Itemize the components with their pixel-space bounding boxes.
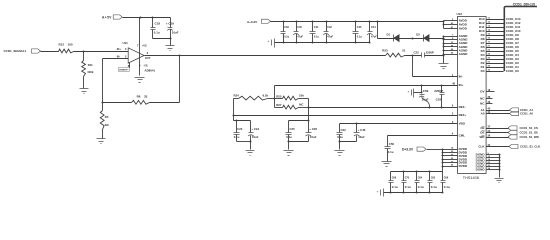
wire cap bank bottom AGND [275, 42, 370, 44]
resistor R24 [234, 93, 275, 100]
svg-text:OE: OE [480, 131, 484, 135]
svg-text:0.1u: 0.1u [405, 185, 411, 189]
svg-text:C25: C25 [290, 127, 296, 131]
capacitor C64 [415, 172, 424, 194]
svg-text:D1: D1 [387, 33, 391, 37]
capacitor C59 [419, 86, 430, 108]
svg-text:C18: C18 [155, 22, 161, 26]
svg-text:33: 33 [144, 95, 148, 99]
capacitor C39 polarized end [268, 39, 275, 48]
wire bottom cap rail [391, 171, 443, 173]
svg-text:CCD1_S1_OE: CCD1_S1_OE [520, 131, 539, 135]
capacitor C19 [166, 18, 179, 39]
wire CML line [388, 135, 458, 137]
svg-text:IN+: IN+ [117, 47, 122, 51]
svg-text:R27: R27 [276, 103, 282, 107]
capacitor C40 [293, 21, 303, 44]
pin 37 CE [480, 126, 538, 131]
ground of R11 [80, 89, 89, 94]
svg-text:-VS: -VS [143, 64, 148, 68]
ground of DGND [495, 179, 504, 183]
capacitor C22 series [414, 50, 444, 57]
capacitor C53 [434, 86, 444, 108]
svg-text:AVDD: AVDD [459, 27, 468, 31]
pin 39 NC [480, 101, 492, 106]
op-amp OUT label [145, 51, 151, 60]
pin 32 CLK [478, 144, 541, 149]
pin 40 A1 [481, 108, 534, 113]
wire diode row [378, 38, 444, 40]
wire node to IN- pin [413, 56, 458, 77]
svg-text:C40: C40 [297, 26, 302, 29]
svg-text:DGND: DGND [476, 167, 486, 171]
svg-text:8.2k: 8.2k [263, 93, 269, 97]
svg-text:0.1u: 0.1u [286, 135, 292, 139]
svg-text:10uF: 10uF [358, 135, 365, 139]
svg-text:0.1u: 0.1u [392, 185, 398, 189]
svg-text:+: + [408, 90, 410, 94]
wire REF+ line [233, 99, 458, 117]
wire cap bottoms [153, 38, 172, 46]
svg-text:+VS: +VS [142, 43, 147, 47]
svg-text:0.1u: 0.1u [357, 36, 362, 39]
svg-text:C69: C69 [392, 177, 397, 180]
svg-text:D2: D2 [416, 33, 420, 37]
pin labels AGND [451, 34, 469, 56]
wire op-amp OUT [145, 55, 386, 57]
wire AGND rail [443, 36, 458, 64]
svg-text:OV: OV [480, 89, 484, 93]
svg-text:AGND: AGND [459, 52, 469, 56]
svg-text:U11: U11 [123, 41, 129, 45]
svg-text:47uF: 47uF [297, 36, 303, 39]
svg-text:10uF: 10uF [252, 135, 259, 139]
svg-text:10uF: 10uF [172, 31, 179, 35]
svg-text:C22: C22 [414, 50, 420, 54]
op-amp supply line [137, 18, 148, 76]
svg-text:0.1u: 0.1u [337, 135, 343, 139]
ground of C56 [382, 162, 392, 167]
wire feedback right [150, 55, 181, 103]
svg-text:R12: R12 [59, 42, 65, 46]
svg-text:C56: C56 [389, 142, 395, 146]
ground of op-amp [135, 78, 145, 83]
pin 18 OVR [480, 89, 494, 94]
svg-text:A0: A0 [481, 112, 485, 116]
op-amp part number [145, 68, 156, 72]
svg-text:CML: CML [459, 133, 466, 137]
svg-text:100k: 100k [87, 70, 94, 74]
svg-text:OUT: OUT [145, 56, 151, 60]
svg-text:47uF: 47uF [371, 36, 377, 39]
svg-text:0.1u: 0.1u [444, 185, 450, 189]
wire pair3 bottom [339, 141, 357, 150]
resistor R6 [132, 95, 150, 105]
capacitor C46 [354, 124, 366, 142]
op-amp pin8 DISABLE [118, 63, 129, 72]
svg-text:IN-: IN- [459, 74, 463, 78]
resistor R25 [275, 94, 309, 108]
net labels CCD1_D13-D0 [506, 17, 521, 73]
svg-text:R25: R25 [276, 94, 282, 98]
svg-text:D+3.3V: D+3.3V [402, 147, 414, 151]
svg-text:DISABLE: DISABLE [119, 69, 128, 72]
wire R23 to node [405, 55, 422, 57]
svg-text:CCD1_S1_CS: CCD1_S1_CS [520, 126, 538, 130]
svg-text:+ C24: + C24 [251, 127, 259, 131]
svg-text:C44: C44 [371, 26, 376, 29]
pins AVDD [443, 19, 468, 31]
power D+3.3V [402, 147, 443, 151]
resistor R11 [82, 52, 94, 89]
ground of pair2 [284, 151, 294, 156]
svg-text:IN+: IN+ [459, 83, 464, 87]
svg-text:R23: R23 [382, 49, 388, 53]
pin 1 IN- [452, 74, 463, 79]
wire pair2 feed [289, 108, 310, 133]
wire IN- feedback [102, 59, 129, 104]
pins DVDD [442, 147, 468, 172]
svg-text:C32: C32 [341, 128, 347, 132]
svg-text:VBO: VBO [459, 122, 466, 126]
svg-text:+ C46: + C46 [358, 128, 366, 132]
svg-text:CCD1_D[0-13]: CCD1_D[0-13] [513, 2, 535, 6]
capacitor C65 [428, 172, 437, 194]
resistor R12 [59, 42, 74, 53]
pin 5 REF+ [452, 112, 467, 117]
svg-text:51: 51 [402, 49, 406, 53]
ground of R5 [97, 139, 106, 144]
wire divider to IN+ [274, 86, 276, 100]
op-amp U11 triangle [123, 41, 145, 63]
wire VBO line [340, 123, 458, 125]
svg-text:100: 100 [68, 42, 73, 46]
capacitor C43 [353, 21, 363, 44]
ground of AGND rail [439, 64, 449, 69]
svg-text:DVDD: DVDD [459, 164, 468, 168]
svg-text:U12: U12 [457, 12, 463, 16]
svg-text:CCD1_SIGNAL1: CCD1_SIGNAL1 [4, 49, 27, 53]
ground of pair1 [246, 151, 255, 156]
svg-text:C59: C59 [423, 89, 429, 93]
resistor R23 [382, 49, 406, 57]
op-amp pin3 IN+ [117, 47, 127, 51]
svg-text:0.1u: 0.1u [418, 185, 424, 189]
pin 4 CML [452, 133, 465, 138]
svg-text:CCD1_A0: CCD1_A0 [520, 112, 533, 116]
svg-text:+: + [268, 39, 270, 43]
ground of pair3 [335, 151, 345, 156]
capacitor C32 [337, 124, 347, 142]
svg-text:+ C26: + C26 [309, 127, 317, 131]
svg-text:C23: C23 [237, 127, 243, 131]
capacitor C44 [367, 21, 377, 44]
svg-text:AD8041: AD8041 [145, 68, 156, 72]
svg-text:C42: C42 [327, 26, 332, 29]
capacitor C71 polarized end [377, 189, 384, 197]
svg-text:10uF: 10uF [310, 135, 317, 139]
svg-text:0.1u: 0.1u [284, 36, 289, 39]
wire IN+ line [275, 85, 458, 87]
capacitor C33 [281, 21, 290, 44]
capacitor C69 [389, 172, 398, 194]
wire pair1 feed [234, 116, 251, 133]
pin 38 NC [480, 96, 492, 101]
svg-text:NC: NC [105, 123, 109, 127]
wire bottom cap ground rail [384, 192, 443, 194]
ground of C18 C19 [166, 46, 175, 51]
capacitor C41 [310, 21, 320, 44]
wire feedback bottom [103, 102, 132, 104]
svg-text:47uF: 47uF [327, 36, 333, 39]
wire R12 to opamp [74, 51, 129, 53]
svg-text:R24: R24 [234, 93, 240, 97]
capacitor C53 polarized end mark [408, 89, 422, 98]
svg-text:+: + [377, 189, 379, 193]
svg-text:R5: R5 [105, 115, 109, 119]
wire pair1 bottom [237, 141, 252, 150]
capacitor C56 [385, 136, 395, 162]
svg-text:D0: D0 [481, 69, 485, 73]
pins DGND [476, 152, 501, 177]
pin 3 VBO [452, 121, 466, 126]
IC U12 THS1408 outline [457, 12, 487, 180]
svg-text:A+5V: A+5V [102, 15, 112, 19]
wire pair2 bottom [288, 141, 309, 150]
svg-text:0.1u: 0.1u [388, 150, 394, 154]
capacitor C18 [151, 18, 161, 39]
svg-text:CCD1_D0: CCD1_D0 [506, 69, 519, 73]
wire 3.3V to diode rail [377, 21, 379, 39]
wire REF- line [309, 107, 458, 109]
capacitor C24 [248, 127, 259, 141]
svg-text:0.1u: 0.1u [431, 185, 437, 189]
svg-text:C70: C70 [405, 177, 410, 180]
svg-text:C53: C53 [436, 98, 442, 102]
resistor R27 [275, 99, 310, 110]
svg-text:C41: C41 [314, 26, 319, 29]
svg-text:A+3.3V: A+3.3V [247, 20, 257, 24]
power A+3.3V [247, 19, 444, 24]
svg-text:CCD1_S1_WR: CCD1_S1_WR [520, 135, 539, 139]
capacitor C42 [323, 21, 333, 44]
svg-text:2200P: 2200P [426, 50, 434, 54]
svg-text:REF-: REF- [459, 105, 466, 109]
svg-text:CLK: CLK [478, 145, 485, 149]
svg-text:0.1u: 0.1u [154, 31, 160, 35]
pin 6 REF- [452, 104, 466, 109]
svg-text:C33: C33 [284, 26, 289, 29]
diode D2 [416, 33, 429, 42]
svg-text:THS1408: THS1408 [463, 176, 479, 180]
capacitor C66 [441, 172, 450, 194]
svg-text:REF+: REF+ [459, 113, 467, 117]
pin 41 A0 [481, 111, 534, 116]
svg-text:C65: C65 [431, 177, 436, 180]
connector CCD1_SIGNAL1 [4, 49, 59, 53]
resistor R5 [100, 103, 109, 139]
svg-text:C43: C43 [357, 26, 362, 29]
pins D13-D0 [479, 17, 504, 73]
svg-text:C64: C64 [418, 177, 423, 180]
svg-text:0.1u: 0.1u [314, 36, 319, 39]
svg-text:CCD1_S1_CLK: CCD1_S1_CLK [520, 145, 541, 149]
bus CCD1_D[0-13] [504, 2, 537, 71]
pin 36 WR [480, 135, 539, 140]
capacitor C26 [305, 127, 317, 141]
diode D1 [387, 33, 400, 42]
capacitor C23 [234, 127, 243, 141]
op-amp pin2 IN- [117, 55, 127, 59]
svg-text:R6: R6 [137, 95, 141, 99]
pin 23 OE [480, 130, 538, 135]
svg-text:10k: 10k [299, 94, 304, 98]
capacitor C70 [402, 172, 411, 194]
svg-text:+ C19: + C19 [166, 22, 174, 26]
svg-text:R11: R11 [88, 63, 93, 67]
capacitor C25 [286, 127, 296, 141]
power A+5V [102, 15, 171, 19]
svg-text:C66: C66 [444, 177, 449, 180]
pin 48 IN+ [452, 82, 463, 86]
